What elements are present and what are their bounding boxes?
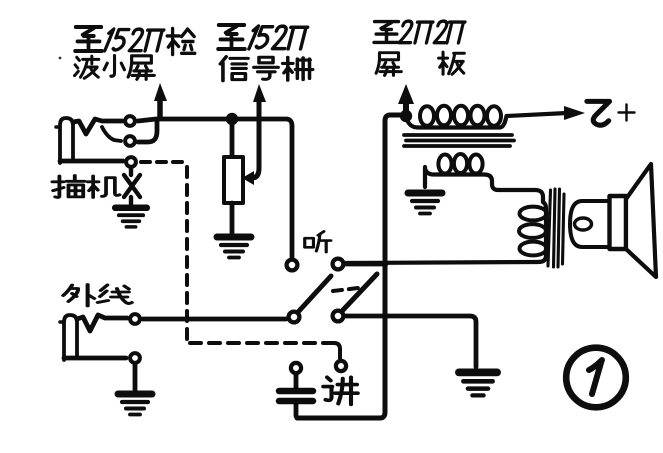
pole contact C (289, 312, 300, 323)
contact K3 (126, 157, 136, 167)
switch arm S1a (299, 276, 331, 311)
transformer T1 primary winding (406, 113, 567, 128)
wire J1 tip to contacts (V notch) (73, 119, 122, 134)
contact B (listen upper-right) (333, 259, 344, 270)
ground for R1 (217, 237, 251, 258)
pole contact D (333, 311, 344, 322)
arrow to B+ (乙+) (564, 106, 585, 120)
wire K2 up to bus (138, 121, 157, 142)
transformer T2 secondary winding (570, 201, 607, 247)
contact K1 (125, 116, 135, 126)
ground for K3 (115, 208, 147, 227)
capacitor C1 plates (279, 375, 313, 416)
wire J2 sleeve (64, 356, 126, 361)
transformer T2 primary winding (346, 202, 546, 263)
resistor R1 (volume pot body) (224, 122, 243, 233)
label 听 (305, 231, 331, 252)
wire corner to contact F (326, 343, 340, 358)
wire hook to lower contact (102, 127, 121, 141)
arrow to 1Б2П detector plate (154, 83, 167, 116)
contact K2 (125, 136, 135, 146)
wire 2П2П plate line down to capacitor (297, 115, 404, 418)
wire J2 tip (V notch) (77, 315, 127, 331)
label 外线 (63, 285, 132, 307)
jack J1 (headphone 插机 jack plug body) (56, 118, 73, 163)
switch arm S1b (343, 274, 377, 310)
label 讲 (323, 377, 358, 404)
wire pole D to ground corner (346, 316, 476, 367)
speaker LS1 (610, 164, 657, 277)
label 至2П2П (374, 21, 465, 43)
contact A (listen upper-left) (287, 260, 298, 271)
contact wire B side (346, 262, 386, 267)
wire main bus to corner, down to contact A (138, 119, 292, 257)
wire/arrow to 1Б2П signal grid with wiper arrow (242, 84, 266, 185)
jack J2 (外线 line jack plug body) (60, 315, 77, 360)
figure number circled 1 (566, 348, 626, 408)
dashed gang link (333, 288, 358, 291)
junction node at transformer T1 (400, 110, 412, 122)
dashed link horizontal to talk contact (190, 341, 326, 345)
junction node at resistor top (226, 113, 238, 125)
contact K4 (130, 314, 140, 324)
breaker X symbol (124, 167, 140, 204)
scan speck (59, 57, 62, 60)
dashed link vertical (185, 167, 189, 339)
transformer T2 core (548, 189, 564, 267)
ground bottom right (459, 372, 497, 395)
dashed link from K3 (141, 160, 182, 164)
label 信号栅 (220, 57, 312, 81)
contact E (talk, to capacitor) (291, 363, 301, 373)
label 至152П检 (75, 27, 195, 55)
label 屏 板 (376, 52, 464, 75)
arrow to 2П2П plate (398, 84, 414, 112)
label 插机 (52, 176, 119, 198)
transformer T1 core (404, 135, 514, 146)
wire K4 to pole C (143, 317, 286, 322)
label 波小屏 (75, 56, 155, 80)
wire jack J1 sleeve (60, 159, 123, 164)
label 至152П (218, 25, 307, 49)
contact F (talk, to dashed link) (336, 361, 346, 371)
ground for J2 (118, 394, 152, 415)
label 乙+ (587, 101, 635, 125)
contact K5 (130, 353, 140, 363)
wire K5 down (133, 365, 138, 390)
transformer T1 secondary winding (425, 167, 543, 202)
ground for T1 secondary (408, 193, 442, 214)
